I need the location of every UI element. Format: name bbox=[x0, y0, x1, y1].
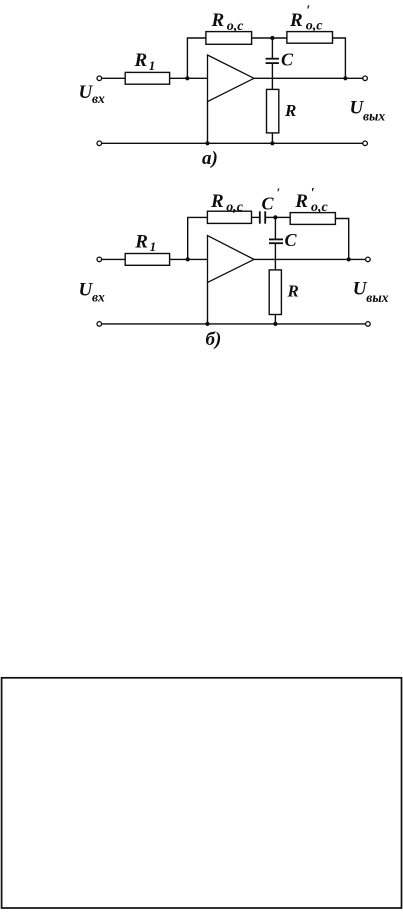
label R (а) bbox=[284, 101, 296, 120]
node: inverting input junction (а) bbox=[185, 76, 189, 80]
label Uвх (б) bbox=[79, 279, 106, 304]
label R'o,c (а) bbox=[289, 4, 323, 34]
label Ro,c (а) bbox=[211, 10, 245, 34]
label а) bbox=[202, 148, 218, 169]
wire: R'o,c to output node (а) bbox=[333, 38, 346, 78]
resistor R (а) bbox=[267, 89, 279, 132]
wire: feedback riser (а) bbox=[187, 38, 206, 78]
resistor R'o,c (а) bbox=[287, 32, 333, 44]
capacitor C' (б) bbox=[260, 211, 276, 223]
node: op-amp ground junction (б) bbox=[205, 322, 209, 326]
wire: Ro,c to C' (б) bbox=[252, 216, 260, 218]
svg-text:1: 1 bbox=[149, 58, 156, 73]
wire: output line (б) bbox=[254, 258, 366, 260]
svg-text:R: R bbox=[211, 10, 225, 31]
label б) bbox=[206, 329, 222, 350]
svg-text:вых: вых bbox=[366, 290, 388, 305]
input terminal (а) bbox=[97, 76, 102, 81]
empty answer box bbox=[2, 678, 402, 908]
resistor Ro,c (а) bbox=[206, 32, 252, 45]
op-amp U1 (а) bbox=[208, 55, 255, 102]
svg-text:C: C bbox=[281, 50, 294, 70]
capacitor C (а) bbox=[266, 38, 279, 89]
node: output junction (б) bbox=[347, 257, 351, 261]
output terminal (б) bbox=[366, 257, 371, 262]
label R1 (а) bbox=[134, 50, 156, 73]
svg-text:R: R bbox=[210, 191, 224, 212]
svg-text:C: C bbox=[285, 230, 298, 250]
label Uвх (а) bbox=[79, 82, 106, 106]
svg-text:′: ′ bbox=[311, 186, 315, 201]
resistor R1 (б) bbox=[125, 254, 169, 266]
wire: R'o,c to output node (б) bbox=[335, 219, 348, 260]
capacitor C (б) bbox=[269, 217, 283, 270]
label C' (б) bbox=[262, 185, 281, 214]
resistor Ro,c (б) bbox=[207, 211, 251, 223]
wire: output line (а) bbox=[254, 77, 363, 79]
wire: op-amp left edge to ground rail (б) bbox=[207, 283, 209, 324]
bottom rail (б) bbox=[102, 323, 366, 325]
svg-text:вх: вх bbox=[92, 290, 105, 305]
wire: input terminal to R1 (б) bbox=[102, 258, 126, 260]
ground terminal left (б) bbox=[97, 322, 102, 327]
svg-text:R: R bbox=[134, 231, 148, 252]
svg-text:б): б) bbox=[206, 329, 222, 350]
label Uвых (а) bbox=[350, 98, 386, 124]
node: R ground junction (б) bbox=[273, 322, 277, 326]
svg-text:1: 1 bbox=[150, 239, 157, 254]
wire: feedback riser (б) bbox=[188, 217, 208, 259]
svg-text:o,c: o,c bbox=[227, 19, 245, 34]
svg-text:o,c: o,c bbox=[311, 200, 329, 215]
svg-text:o,c: o,c bbox=[226, 200, 244, 215]
label R (б) bbox=[287, 281, 299, 300]
svg-text:o,c: o,c bbox=[306, 19, 324, 34]
wire: node B to R'o,c (б) bbox=[275, 216, 290, 218]
label C (б) bbox=[285, 230, 298, 250]
svg-text:R: R bbox=[294, 191, 308, 212]
svg-text:C: C bbox=[262, 194, 275, 214]
node B: C' / R'o,c / C junction (б) bbox=[273, 215, 277, 219]
resistor R1 (а) bbox=[125, 72, 169, 84]
svg-text:R: R bbox=[289, 10, 303, 31]
svg-text:вых: вых bbox=[363, 109, 385, 124]
wire: input terminal to R1 (а) bbox=[102, 77, 126, 79]
wire: Ro,c to node A (а) bbox=[252, 37, 287, 39]
node: op-amp ground junction (а) bbox=[205, 141, 209, 145]
ground terminal right (а) bbox=[363, 141, 368, 146]
input terminal (б) bbox=[97, 257, 102, 262]
label R'o,c (б) bbox=[294, 186, 328, 215]
svg-text:R: R bbox=[134, 50, 148, 71]
svg-text:R: R bbox=[287, 281, 299, 300]
ground terminal left (а) bbox=[97, 141, 102, 146]
op-amp U2 (б) bbox=[208, 236, 255, 283]
svg-text:′: ′ bbox=[306, 4, 310, 19]
svg-text:вх: вх bbox=[92, 91, 105, 106]
wire: R1 to op-amp input (б) bbox=[170, 258, 208, 260]
label Ro,c (б) bbox=[210, 191, 244, 215]
wire: R1 to op-amp input (а) bbox=[170, 77, 208, 79]
wire: R to ground rail (а) bbox=[271, 133, 273, 143]
label R1 (б) bbox=[134, 231, 156, 254]
output terminal (а) bbox=[363, 76, 368, 81]
svg-text:R: R bbox=[284, 101, 296, 120]
node: output junction (а) bbox=[343, 76, 347, 80]
label C (а) bbox=[281, 50, 294, 70]
svg-text:а): а) bbox=[202, 148, 218, 169]
svg-text:′: ′ bbox=[277, 185, 281, 200]
resistor R'o,c (б) bbox=[290, 213, 335, 225]
bottom rail (а) bbox=[102, 142, 363, 144]
node: inverting input junction (б) bbox=[186, 257, 190, 261]
label Uвых (б) bbox=[353, 279, 389, 305]
wire: R to ground rail (б) bbox=[274, 315, 276, 324]
node: R ground junction (а) bbox=[270, 141, 274, 145]
ground terminal right (б) bbox=[366, 322, 371, 327]
node A: Ro,c / R'o,c / C junction (а) bbox=[270, 36, 274, 40]
wire: op-amp left edge to ground rail (а) bbox=[207, 102, 209, 144]
resistor R (б) bbox=[269, 270, 281, 315]
